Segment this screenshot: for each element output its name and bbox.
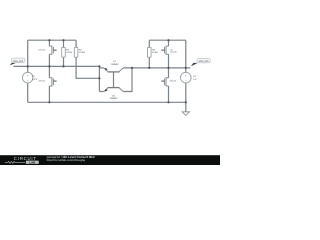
svg-text:10 kΩ: 10 kΩ [66,51,72,54]
svg-text:2N3904: 2N3904 [111,63,119,66]
svg-text:10 kΩ: 10 kΩ [152,51,158,54]
svg-text:+: + [27,74,29,78]
svg-text:BSS138: BSS138 [170,79,176,82]
svg-text:BSS138: BSS138 [39,48,45,51]
svg-text:+: + [185,74,187,78]
svg-text:BSS138: BSS138 [170,51,176,54]
svg-text:−: − [27,79,29,83]
svg-text:−: − [185,79,187,83]
svg-text:2N3904: 2N3904 [110,97,118,100]
svg-text:3.3 V: 3.3 V [32,78,38,81]
svg-text:http://circuitlab.com/c/8cwg6q: http://circuitlab.com/c/8cwg6q [47,159,86,162]
svg-text:BSS138: BSS138 [39,80,45,83]
svg-text:SDA_5V0: SDA_5V0 [199,60,210,63]
svg-text:5 V: 5 V [193,78,197,81]
svg-text:SDA_3V3: SDA_3V3 [13,60,24,63]
svg-text:LAB: LAB [29,160,35,164]
svg-text:10 kΩ: 10 kΩ [79,51,85,54]
